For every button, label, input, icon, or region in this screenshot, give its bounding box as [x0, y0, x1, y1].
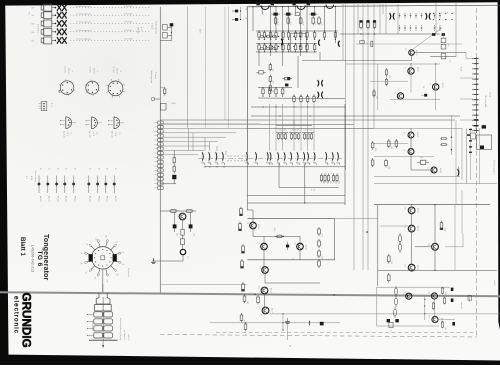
resistor osc a [385, 68, 390, 78]
resistor bm a [243, 294, 248, 304]
svg-text:a1: a1 [440, 12, 442, 14]
transistor T5 [408, 149, 414, 155]
resistor stack m2 [269, 84, 273, 93]
svg-text:T16: T16 [257, 286, 259, 289]
wire dashed from S3 [70, 21, 150, 24]
transistor case view Q2 [86, 117, 102, 138]
wire T7 mid drop [182, 220, 184, 230]
resistor rm4 [371, 158, 374, 167]
wire bus drop [275, 6, 276, 31]
wire br v424 [424, 296, 425, 320]
wire bus drop [262, 6, 263, 15]
oval br c [394, 307, 397, 317]
switch contact b x247.6 [245, 152, 248, 165]
resistor 470 c [441, 54, 450, 63]
svg-text:0,1: 0,1 [187, 256, 189, 259]
wire bus drop [335, 6, 336, 43]
switch contacts S3a/S3b [57, 20, 67, 27]
resistor 470 b [441, 44, 446, 49]
resistor r c [388, 254, 393, 264]
wire dashed from S2 [70, 12, 150, 15]
svg-text:6,3V 50Hz: 6,3V 50Hz [124, 13, 132, 15]
label T20 [428, 315, 444, 323]
svg-text:E 2: E 2 [25, 176, 27, 179]
oval r b [399, 242, 402, 253]
resistor below switch [324, 174, 328, 184]
switch contact b x304.8 [303, 152, 306, 165]
resistor row mid2 [306, 95, 308, 104]
resistor grid r1 [313, 30, 315, 40]
transistor T12 [408, 207, 415, 214]
svg-text:30V 0,5: 30V 0,5 [93, 68, 95, 74]
transistor Tb [433, 84, 439, 90]
legend diode D3 [55, 168, 60, 202]
wire strip feeds [460, 53, 473, 121]
transistor socket view U2 [85, 67, 100, 96]
wire T7 r drop [190, 212, 192, 224]
label T15 [404, 264, 420, 270]
resistor left col [238, 207, 243, 216]
svg-text:100k: 100k [444, 228, 446, 232]
svg-text:6,3V 50Hz: 6,3V 50Hz [124, 30, 132, 32]
cap bracket pair b [318, 92, 323, 98]
svg-text:a1: a1 [452, 12, 454, 14]
svg-text:470: 470 [322, 181, 324, 184]
wire diagonal feed [413, 28, 443, 50]
svg-text:T10: T10 [293, 242, 295, 245]
resistor c mid [275, 235, 284, 237]
wire v236 [240, 7, 242, 20]
transistor case view Q1 [60, 117, 76, 138]
capacitor T7 r [189, 224, 193, 232]
svg-text:an Tastenaggregat: an Tastenaggregat [76, 29, 91, 32]
wire drop to contact [275, 104, 277, 151]
svg-text:a1: a1 [434, 12, 436, 14]
svg-text:56k: 56k [239, 264, 241, 267]
capacitor br d1 [387, 319, 390, 322]
capacitor tc2 [232, 17, 247, 21]
svg-text:56k: 56k [238, 212, 240, 215]
resistor bm d [257, 295, 260, 304]
wire r h270 [378, 270, 497, 271]
switch contact b x278.8 [277, 152, 280, 165]
title part number [31, 245, 35, 273]
resistor 470 a [441, 38, 448, 46]
svg-text:56k: 56k [240, 287, 242, 290]
label T12 [404, 207, 420, 213]
wire vertical bus [397, 4, 399, 34]
svg-text:470: 470 [334, 181, 336, 184]
label connector right [119, 318, 122, 340]
wire br links [412, 296, 455, 319]
svg-text:AC 122: AC 122 [111, 131, 114, 137]
oval br b [395, 296, 398, 306]
svg-text:470: 470 [447, 43, 449, 46]
switch contact b x315.2 [313, 152, 316, 165]
stage dashed bottom [216, 331, 473, 333]
svg-text:TA 3 polig DIN: TA 3 polig DIN [484, 95, 487, 108]
wire bus drop [314, 6, 315, 15]
svg-text:T18: T18 [401, 292, 403, 295]
wire drop to contact [313, 104, 315, 151]
svg-text:10k: 10k [176, 233, 178, 236]
capacitor small [371, 41, 373, 46]
transistor T7 [179, 213, 186, 220]
wire x345 vertical [344, 104, 346, 205]
switch contacts S2a/S2b [57, 12, 67, 19]
wire top bus [247, 5, 500, 7]
wire bm h314 [269, 313, 500, 314]
bracket contact right [319, 40, 320, 46]
grid hres row a [260, 36, 277, 38]
wire drop to contact [293, 104, 295, 151]
switch contact b x291.8 [290, 152, 293, 165]
resistor c col3 [318, 249, 323, 259]
wire mid h5 [160, 119, 455, 121]
svg-text:4,7k: 4,7k [302, 22, 304, 25]
transistor T13 [408, 225, 415, 232]
diode Zd [256, 71, 266, 74]
pushbutton S2 [31, 12, 56, 19]
svg-text:470: 470 [329, 181, 331, 184]
wire below switch h3 [204, 166, 345, 167]
resistor T7 right [185, 210, 193, 213]
wire mid h6 [160, 123, 354, 125]
wire r h204 [374, 204, 490, 205]
grid box center [291, 33, 307, 52]
wire grid top [256, 30, 338, 32]
svg-text:GRUNDIG: GRUNDIG [20, 293, 33, 348]
wire T3 right [414, 52, 466, 54]
grid dots row a [266, 36, 307, 37]
label T14 [427, 243, 429, 246]
resistor dark band [282, 77, 292, 80]
wire mid h3 [251, 106, 345, 107]
svg-text:T3: T3 [393, 92, 395, 94]
pushbutton S4 [31, 28, 56, 35]
wire bus drop [270, 6, 271, 56]
svg-text:TG 6: TG 6 [36, 251, 43, 267]
resistor grid r2 [313, 43, 315, 52]
resistor R x319.0 [318, 16, 322, 25]
switch shaft dashed [198, 157, 342, 159]
svg-text:AA 113: AA 113 [65, 196, 68, 202]
label button block [37, 24, 39, 34]
wire c v334 [334, 219, 336, 260]
rotary switch SW1 [80, 235, 125, 283]
wire dashed from S1 [70, 5, 150, 8]
transistor T19 [431, 293, 437, 299]
svg-text:1,2k: 1,2k [390, 261, 392, 264]
switch contact a x203.5 [201, 152, 204, 165]
label T9 [258, 242, 260, 244]
resistor R x300.7 [299, 16, 303, 25]
svg-text:30V 0,5: 30V 0,5 [67, 68, 69, 74]
svg-text:T20: T20 [428, 315, 430, 318]
switch contact b x285.3 [283, 152, 286, 165]
svg-text:T19: T19 [427, 291, 429, 294]
svg-text:an Tastatur 2: an Tastatur 2 [123, 330, 126, 340]
connector X1 stack [87, 293, 118, 348]
wire bus drop [295, 6, 296, 15]
svg-text:T13: T13 [404, 225, 406, 228]
svg-text:AA 113: AA 113 [98, 196, 101, 202]
terminal dots grid [433, 12, 455, 20]
wire above trio [276, 120, 312, 125]
resistor below switch [336, 174, 340, 184]
resistor grid r2 [282, 43, 284, 52]
transistor Tc [397, 93, 403, 99]
label T10 [293, 242, 308, 250]
svg-text:4,7k: 4,7k [314, 22, 316, 25]
resistor c col4 [318, 259, 321, 268]
wire vertical bus [373, 4, 375, 128]
connector J1 3-pin [39, 102, 52, 111]
resistor grid r2 [306, 43, 308, 52]
wire long v456b [455, 120, 457, 205]
svg-text:0,5W: 0,5W [460, 67, 462, 71]
svg-text:I 50: I 50 [31, 32, 34, 34]
pushbutton S3 [31, 20, 56, 27]
capacitor dark c1 [432, 33, 435, 36]
svg-text:T2: T2 [428, 83, 430, 85]
label T6 [426, 167, 442, 173]
svg-text:T12: T12 [404, 207, 406, 210]
label pot [187, 256, 189, 259]
switch contact b x268.4 [266, 152, 269, 165]
transistor T11 [262, 267, 269, 274]
svg-text:4,7k: 4,7k [276, 22, 278, 25]
svg-text:220: 220 [246, 301, 248, 304]
capacitor c mid [286, 242, 289, 250]
resistor left col [240, 244, 245, 253]
label q2 [311, 190, 315, 192]
wire osc h81 [370, 80, 408, 82]
wire T4 left [374, 143, 408, 145]
wire c h236 [253, 235, 300, 237]
legend text left [25, 170, 36, 183]
box T7 chain2 [180, 235, 184, 244]
svg-text:T5: T5 [403, 149, 405, 151]
capacitor bm dark [320, 322, 324, 326]
wire drop b [282, 56, 284, 66]
capacitor cross grid [399, 13, 442, 31]
svg-text:6,3V 50Hz: 6,3V 50Hz [124, 39, 132, 41]
switch contacts S5a/S5b [57, 37, 67, 44]
capacitor bm gnd [285, 318, 290, 347]
resistor grid r1 [275, 30, 277, 40]
switch contact b x271.2 [269, 152, 272, 165]
wire T8 drop [252, 210, 254, 236]
svg-text:D1: D1 [48, 168, 50, 170]
switch contact b x256.7 [255, 152, 258, 165]
svg-text:Tastenaggregat: Tastenaggregat [150, 70, 153, 84]
svg-text:AA 113: AA 113 [114, 196, 117, 202]
svg-text:an Tastenaggregat: an Tastenaggregat [76, 38, 91, 41]
diode zener [417, 157, 429, 164]
capacitor osc [421, 86, 427, 97]
switch row dots [228, 156, 246, 162]
resistor left col [237, 222, 242, 231]
resistor row mid2 [300, 95, 302, 104]
svg-text:Pegelwahl: Pegelwahl [127, 268, 129, 277]
wire vertical x228 [227, 7, 229, 128]
svg-text:I 50: I 50 [31, 8, 34, 10]
wire C block [430, 3, 456, 57]
pushbutton S1 [31, 4, 56, 11]
scan border right [498, 0, 500, 330]
label T13 [404, 225, 420, 231]
transistor T1 top [256, 2, 274, 9]
svg-text:100: 100 [444, 327, 446, 330]
legend diode D5 [72, 168, 77, 202]
wire br stub [468, 295, 472, 302]
transistor T4 [408, 132, 414, 138]
svg-text:Verbindungsltg 13: Verbindungsltg 13 [493, 160, 496, 174]
grid hres row b [260, 48, 277, 50]
svg-text:AA 113: AA 113 [74, 196, 77, 202]
resistor pair right mid [440, 137, 447, 145]
wire horizontal mains rail [0, 292, 500, 296]
wire bus drop [252, 6, 253, 31]
capacitor dark [284, 13, 293, 16]
svg-text:Verbindungsleitung 13 polig: Verbindungsleitung 13 polig [119, 318, 122, 340]
resistor R x288.2 [287, 16, 291, 25]
svg-text:electronic: electronic [13, 296, 20, 334]
svg-text:an Tastenaggregat: an Tastenaggregat [76, 12, 91, 15]
resistor row mid2 [313, 95, 315, 104]
svg-text:56k: 56k [240, 249, 242, 252]
transistor T3 [409, 50, 415, 56]
resistor stack m1 [269, 75, 273, 84]
resistor grid r1 [263, 30, 265, 40]
legend diode D7 [96, 168, 101, 202]
resistor below [360, 41, 368, 45]
svg-text:D1: D1 [65, 168, 67, 170]
capacitor br d2 [395, 319, 398, 322]
svg-text:AA 113: AA 113 [57, 196, 60, 202]
resistor br e [389, 322, 393, 332]
resistor mid small [160, 87, 166, 96]
svg-text:(24V): (24V) [171, 103, 176, 105]
label T7 values [176, 233, 195, 236]
resistor trio above switch x278.5 [276, 130, 288, 140]
switch contact b x333.4 [331, 152, 334, 165]
label Tc [393, 92, 395, 94]
svg-text:T6: T6 [426, 167, 428, 169]
svg-text:6,3V 50Hz: 6,3V 50Hz [124, 22, 132, 24]
svg-text:AA 113: AA 113 [106, 196, 109, 202]
wire vertical x247 [246, 7, 248, 152]
resistor row mid2 [293, 95, 295, 104]
switch contacts S1a/S1b [57, 4, 67, 11]
wire vertical bus [367, 4, 369, 270]
svg-text:I 50: I 50 [31, 15, 34, 17]
wire T14 conn [415, 205, 435, 270]
svg-text:S 2/3: S 2/3 [311, 190, 315, 192]
label tasten upper [151, 21, 158, 35]
capacitor dark br1 [451, 288, 454, 291]
svg-text:D1: D1 [73, 168, 75, 170]
svg-text:22k: 22k [271, 69, 273, 72]
box small right a [471, 133, 476, 139]
resistor below switch [332, 174, 336, 184]
wire mid h2 [258, 97, 345, 100]
capacitor bm small [309, 321, 311, 326]
svg-text:680: 680 [320, 256, 322, 259]
svg-text:T3: T3 [404, 48, 406, 50]
wire osc v435 [435, 64, 437, 110]
relay K1 with capacitor [160, 23, 200, 40]
svg-text:AA 113: AA 113 [48, 196, 51, 202]
label T3 [404, 48, 418, 56]
wire bus drop [288, 6, 289, 31]
wire h above bottom [160, 284, 247, 286]
resistor grid r1 [334, 30, 336, 40]
label DB40 note [137, 27, 143, 34]
transistor T15 [408, 264, 415, 271]
resistor left col [239, 259, 244, 268]
bracket pair 2 [426, 13, 431, 20]
capacitor dark [309, 13, 318, 16]
svg-text:T1: T1 [404, 67, 406, 69]
resistor grid r2 [300, 43, 302, 52]
wire drop to contact [269, 104, 271, 151]
svg-text:22k: 22k [271, 81, 273, 84]
switch contact a x210 [208, 152, 211, 165]
svg-text:30V 0,5: 30V 0,5 [116, 68, 118, 74]
wire grid mid [256, 43, 317, 45]
wire vertical bus [379, 4, 381, 34]
transistor T8 [250, 222, 257, 229]
label mid small [150, 70, 157, 84]
svg-text:Spannungsang.: Spannungsang. [34, 170, 36, 183]
svg-text:DB 40v: DB 40v [137, 27, 139, 34]
box small right b [477, 135, 492, 150]
label T8 [246, 222, 260, 229]
dark bar right a [482, 125, 486, 128]
transistor T2 top [292, 2, 310, 9]
legend diode D8 [104, 168, 109, 202]
wire vertical bus [382, 4, 384, 14]
wire vertical bus [345, 4, 347, 170]
svg-text:1,2k 2k 3k3: 1,2k 2k 3k3 [291, 130, 300, 132]
label bottom left col [123, 330, 129, 340]
capacitor dark [271, 13, 280, 16]
wire below switch h2 [247, 194, 345, 196]
scan border top [0, 0, 500, 6]
switch contact a x217 [215, 152, 218, 165]
wire rm h2 [374, 176, 460, 178]
wire vertical x206 [205, 7, 207, 128]
resistor rm3 [371, 141, 376, 151]
title TG 6 [36, 251, 43, 267]
pushbutton S5 [31, 37, 56, 44]
svg-text:0,1: 0,1 [449, 60, 451, 63]
legend diode D4 [63, 168, 68, 202]
legend diode D9 [112, 168, 117, 202]
wire T7 bottom [153, 260, 183, 262]
bracket contact right2 [338, 41, 339, 47]
wire r misc [445, 233, 463, 247]
stage box outline [377, 287, 450, 326]
resistor br g [443, 297, 445, 305]
wire v455 stage [454, 205, 456, 271]
svg-text:470: 470 [338, 181, 340, 184]
resistor T7 left [169, 210, 177, 213]
transistor T17 [262, 307, 269, 314]
resistor R x275.6 [274, 16, 278, 25]
